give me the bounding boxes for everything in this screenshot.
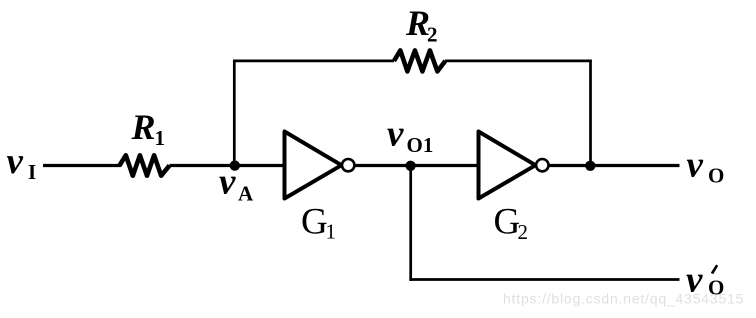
svg-text:R: R xyxy=(131,107,156,147)
label R1 xyxy=(131,107,166,150)
wire: feedback top left horizontal xyxy=(233,60,394,63)
wire: R1 to G1 input (through node A) xyxy=(170,164,287,167)
svg-text:v: v xyxy=(7,141,24,182)
label vA xyxy=(219,162,254,206)
svg-text:G: G xyxy=(494,202,521,243)
node A junction dot xyxy=(230,160,240,170)
resistor R2 xyxy=(394,50,445,71)
op-amp G1 (inverter triangle) xyxy=(285,132,342,199)
wire: feedback right vertical (down to output node) xyxy=(589,60,592,166)
svg-text:2: 2 xyxy=(427,23,438,47)
wire: feedback left vertical (node A up) xyxy=(233,60,236,166)
wire: vO1 down vertical xyxy=(409,166,412,281)
label vO1 xyxy=(387,114,433,158)
svg-text:1: 1 xyxy=(155,126,166,150)
node output junction dot xyxy=(585,161,595,171)
svg-text:v: v xyxy=(387,114,404,155)
wire: G1 output to G2 input (through node vO1) xyxy=(355,164,480,167)
label R2 xyxy=(405,3,438,47)
wire: bottom horizontal to vO' xyxy=(409,278,679,281)
svg-text:A: A xyxy=(238,182,254,206)
node vO1 junction dot xyxy=(405,161,415,171)
inverter G2 bubble xyxy=(536,159,548,171)
svg-text:1: 1 xyxy=(326,220,337,244)
svg-text:2: 2 xyxy=(518,220,529,244)
label vO' (prime) xyxy=(686,260,724,301)
op-amp G2 (inverter triangle) xyxy=(479,132,536,199)
wire: G2 output to vO xyxy=(549,164,680,167)
svg-text:v: v xyxy=(687,145,704,186)
label G1 xyxy=(301,202,336,244)
svg-text:O: O xyxy=(708,164,724,188)
wire: input from vI to R1 xyxy=(43,164,121,167)
label vO xyxy=(687,145,725,188)
label vI xyxy=(7,141,37,184)
svg-text:O1: O1 xyxy=(407,133,434,157)
label G2 xyxy=(494,202,529,245)
resistor R1 xyxy=(120,155,170,175)
svg-text:I: I xyxy=(28,160,36,184)
svg-text:v: v xyxy=(219,162,236,203)
wire: feedback top right horizontal xyxy=(445,60,592,63)
inverter G1 bubble xyxy=(342,159,354,171)
svg-text:G: G xyxy=(301,202,328,243)
svg-text:https://blog.csdn.net/qq_43543: https://blog.csdn.net/qq_43543515 xyxy=(503,291,744,307)
